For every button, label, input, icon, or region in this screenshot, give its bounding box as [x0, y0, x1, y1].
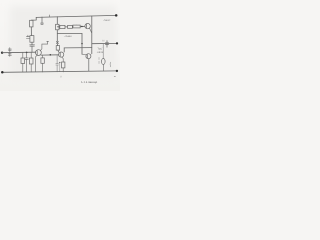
- wire: Q3 base from x82: [82, 53, 86, 55]
- wire: C to Q4: [80, 25, 85, 27]
- node: dot on y55 wire: [50, 54, 52, 56]
- node: small tick above rail x49.6: [49, 15, 51, 17]
- wire: output line y43.7: [92, 42, 117, 44]
- capacitor C3 stub from rail at x42: [41, 17, 44, 24]
- capacitor C7 (x26.6 below input line): [25, 52, 28, 72]
- paper background: [0, 0, 120, 91]
- wire: top supply rail: [36, 15, 116, 17]
- resistor R1 (left top, below rail corner): [30, 20, 33, 27]
- wire: x92 vertical from rail down: [91, 16, 93, 54]
- node: input terminal dot: [1, 52, 3, 54]
- resistor R6 (x22.8 below input line): [22, 52, 24, 58]
- wire: x82 vertical: [81, 34, 83, 55]
- svg-text:-ʋɨʋ ɨʊ: -ʋɨʋ ɨʊ: [97, 51, 104, 54]
- wire: Q1 collector up and right: [40, 41, 48, 50]
- wire: Q1 out to Q2 base y55: [41, 54, 59, 56]
- resistor R10 (horizontal row box B): [68, 26, 73, 29]
- node X junction on x57: [56, 41, 58, 43]
- wire: input line: [2, 51, 36, 54]
- wire: R1 to R2: [30, 27, 32, 36]
- transistor Q4 (top right circle): [85, 23, 90, 28]
- wire: R4 to Q2: [57, 50, 60, 52]
- svg-text:L.ɪ.L ʍɯɰʌ: L.ɪ.L ʍɯɰʌ: [81, 80, 97, 84]
- wire: B to C: [71, 26, 74, 28]
- wire: oval to bottom rail: [102, 65, 104, 71]
- node: junction dot input line x26.6: [26, 52, 28, 54]
- wire: faint dashes x99: [98, 57, 100, 63]
- svg-text:ˉˍˉ: ˉˍˉ: [60, 23, 62, 26]
- svg-text:∼ʇʌɹʉɯ: ∼ʇʌɹʉɯ: [64, 35, 72, 38]
- resistor R3 (on x57 column): [56, 24, 59, 30]
- capacitor C1 (ticks left of R2): [26, 35, 29, 38]
- wire: bottom rail: [2, 71, 117, 72]
- resistor R7 (x31.2 below input line): [30, 52, 32, 58]
- wire: Q3 emitter to bottom rail: [88, 59, 90, 71]
- wire: X down to R4: [57, 44, 59, 46]
- wire: rail left corner down: [31, 17, 36, 20]
- resistor R9 (horizontal row box A): [60, 25, 65, 28]
- node: bottom-right terminal dot: [116, 70, 118, 72]
- wire: Q1 emitter down: [36, 55, 38, 71]
- wire: x64 down to Q2: [63, 48, 65, 52]
- transistor Q3: [86, 54, 91, 59]
- node: dot on x82 at y43.6: [81, 43, 82, 44]
- wire: rail down to R3 at x57: [56, 17, 58, 25]
- wire: thin element x59.8: [59, 62, 60, 63]
- transistor Q2: [59, 52, 64, 57]
- wire: horizontal row from x57 at y26.8: [57, 26, 60, 28]
- wire: A to B: [65, 26, 68, 28]
- node: junction dot x82 y26.5: [81, 26, 82, 27]
- capacitor C5 (oval, right bottom): [102, 59, 106, 65]
- node: bottom-left terminal dot: [1, 71, 4, 74]
- resistor R4 (lower on x57 column): [56, 46, 59, 51]
- resistor R2 (left middle): [30, 36, 34, 43]
- capacitor C2 plates below R2: [30, 42, 35, 52]
- svg-text:ˉˍ: ˉˍ: [76, 22, 78, 25]
- wire: R5 to bottom rail: [62, 68, 64, 72]
- wire: Q4 emitter diagonal to x91.8: [90, 28, 92, 33]
- node: speck below rail right: [114, 75, 115, 77]
- wire: y47.8 horizontal: [64, 47, 92, 49]
- capacitor C4 on output line: [105, 41, 108, 48]
- transistor Q1: [36, 50, 42, 56]
- resistor R11 (horizontal row long box C): [73, 25, 80, 28]
- resistor R5 (below Q2): [62, 62, 65, 68]
- wire: x103 vertical from output line: [102, 44, 104, 59]
- resistor R8 (x42.6 below y55 wire): [42, 55, 44, 58]
- wire: R3 down to node: [56, 30, 58, 42]
- node: top-right rail terminal dot: [115, 14, 118, 17]
- wire: y33.6 horizontal line: [57, 33, 82, 35]
- wire: faint squiggle x110: [109, 62, 112, 67]
- capacitor C6 (trimmer on input line x9.8): [8, 48, 11, 57]
- svg-text:-˃a.s˂: -˃a.s˂: [103, 18, 111, 22]
- wire: Q2 emitter down: [62, 57, 63, 62]
- node: output terminal dot: [116, 42, 118, 44]
- capacitor C8 (x57 below y55 wire): [56, 55, 59, 72]
